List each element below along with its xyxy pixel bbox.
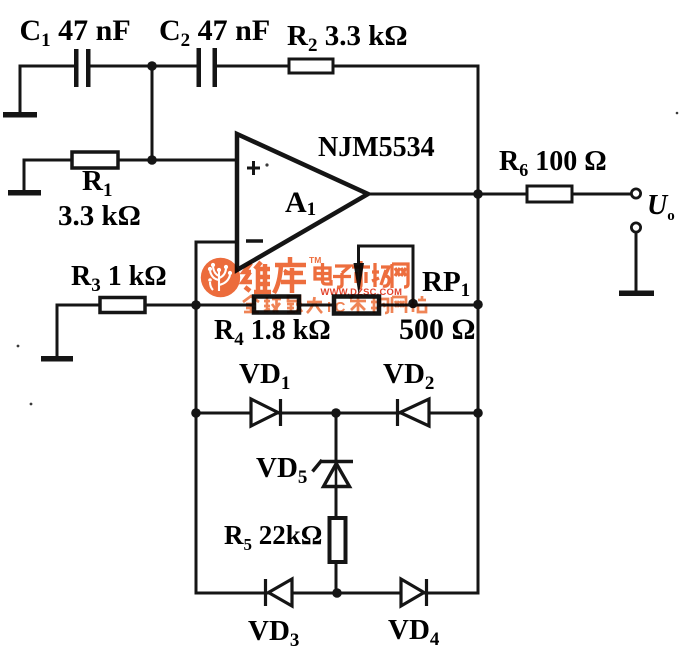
svg-text:VD4: VD4	[388, 614, 440, 650]
diode VD1	[251, 399, 281, 426]
watermark char ku	[274, 257, 306, 293]
watermark logo circle	[201, 258, 240, 297]
resistor R5	[330, 518, 346, 562]
terminal U0 bottom	[631, 223, 640, 232]
svg-text:R3 1 kΩ: R3 1 kΩ	[71, 261, 167, 296]
svg-text:3.3 kΩ: 3.3 kΩ	[58, 200, 141, 232]
wire node link vertical	[151, 66, 154, 160]
op-amp plus sign	[247, 161, 260, 175]
svg-text:R5 22kΩ: R5 22kΩ	[224, 520, 322, 554]
resistor R6	[527, 186, 572, 202]
wire mid row	[57, 304, 478, 307]
wire bottom row	[196, 592, 478, 595]
svg-text:IC: IC	[327, 299, 349, 316]
watermark char shi	[352, 261, 370, 288]
potentiometer RP1 body	[334, 297, 379, 314]
node dot diode row left	[191, 408, 201, 418]
svg-text:NJM5534: NJM5534	[318, 132, 435, 163]
watermark slogan zui	[287, 296, 302, 312]
watermark slogan zhan	[410, 296, 426, 312]
resistor R3	[100, 298, 145, 313]
watermark char wei	[243, 262, 271, 292]
wire inverting input	[196, 241, 237, 244]
wire right long vertical	[477, 66, 480, 593]
svg-text:500 Ω: 500 Ω	[399, 313, 476, 346]
svg-text:Uo: Uo	[647, 190, 675, 224]
svg-text:R4 1.8 kΩ: R4 1.8 kΩ	[214, 315, 331, 350]
svg-text:RP1: RP1	[422, 266, 470, 301]
zener diode VD5	[313, 460, 354, 487]
svg-text:R6 100 Ω: R6 100 Ω	[499, 146, 607, 180]
op-amp A1	[237, 134, 368, 270]
node dot RP1 right	[408, 299, 418, 309]
diode VD4	[401, 579, 427, 606]
scan speckle dots	[17, 112, 679, 406]
watermark slogan cai	[350, 296, 366, 313]
resistor R1	[72, 152, 118, 168]
resistor R4	[254, 297, 299, 313]
wire diode row 1	[196, 412, 478, 415]
svg-text:VD3: VD3	[248, 615, 299, 651]
watermark slogan gou	[371, 298, 388, 313]
svg-text:VD1: VD1	[239, 358, 290, 394]
watermark char zi	[333, 266, 351, 287]
ground for C1	[3, 112, 37, 118]
resistor R2	[289, 59, 333, 73]
svg-text:VD2: VD2	[383, 358, 434, 394]
svg-text:C1 47 nF: C1 47 nF	[20, 14, 131, 51]
wire R1 ground drop	[23, 160, 26, 190]
watermark	[201, 255, 426, 316]
svg-text:R2 3.3 kΩ: R2 3.3 kΩ	[287, 20, 408, 56]
capacitor C1	[74, 49, 91, 87]
ground for R3	[41, 356, 73, 362]
wire RP1 wiper loop	[359, 246, 414, 302]
node dot diode row center	[331, 408, 341, 418]
wire top rail mid segment	[90, 65, 196, 68]
wire top rail left segment	[20, 65, 74, 68]
watermark char wang	[392, 264, 408, 288]
node dot bottom center	[332, 588, 342, 598]
node dot R1 row	[147, 155, 157, 165]
op-amp minus sign	[246, 239, 263, 243]
diode VD3	[266, 579, 293, 606]
watermark slogan da	[307, 297, 322, 313]
ground for R1	[8, 190, 41, 196]
wire C1 ground drop	[19, 66, 22, 112]
node dot top	[147, 61, 157, 71]
svg-text:VD5: VD5	[256, 452, 307, 488]
watermark slogan quan	[243, 296, 259, 312]
watermark char dian	[315, 263, 331, 284]
wire R1 row	[24, 159, 237, 162]
wire output row	[368, 193, 630, 196]
ground for U0	[619, 291, 654, 297]
node dot mid right	[473, 300, 483, 310]
svg-text:C2 47 nF: C2 47 nF	[159, 14, 270, 51]
watermark slogan wang2	[392, 297, 406, 313]
potentiometer RP1 wiper arrow	[354, 263, 365, 295]
watermark char chang	[372, 263, 389, 287]
wire R3 ground drop	[56, 305, 59, 356]
wire top rail right segment	[217, 65, 478, 68]
node dot mid left	[191, 300, 201, 310]
svg-text:R1: R1	[82, 165, 112, 201]
wire left long vertical	[195, 242, 198, 593]
terminal U0 top	[631, 189, 640, 198]
capacitor C2	[197, 48, 218, 87]
wire U0 ground drop	[635, 233, 638, 289]
node dot diode row right	[473, 408, 483, 418]
diode VD2	[398, 399, 430, 426]
node dot output	[473, 189, 483, 199]
wire center vertical	[335, 413, 338, 593]
svg-text:WWW.DZSC.COM: WWW.DZSC.COM	[321, 286, 403, 297]
watermark slogan qiu	[264, 297, 281, 312]
svg-text:TM: TM	[309, 255, 321, 265]
